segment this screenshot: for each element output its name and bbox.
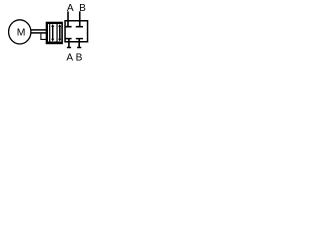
port block P2 <box>64 20 88 43</box>
port B bottom plug <box>76 38 83 40</box>
divider line 1 <box>49 24 51 42</box>
svg-text:A: A <box>67 3 74 14</box>
motor M1 circle <box>9 20 31 44</box>
port A bottom plug <box>65 38 71 40</box>
port A top plug <box>65 26 71 28</box>
mounting bracket <box>41 34 47 40</box>
svg-text:B: B <box>76 53 83 64</box>
port B top plug <box>76 26 83 28</box>
port A top stem <box>67 11 69 26</box>
svg-text:A: A <box>66 53 73 64</box>
pump body P1 <box>46 22 63 45</box>
pump element arrow 2 <box>58 24 61 42</box>
port A bottom stem <box>68 39 70 47</box>
svg-text:M: M <box>17 27 26 38</box>
shaft lower line <box>31 32 47 34</box>
shaft upper line <box>31 29 47 31</box>
svg-text:B: B <box>79 3 86 14</box>
port B top stem <box>79 11 81 26</box>
background <box>0 0 101 66</box>
port B bottom stem <box>78 39 80 47</box>
port B bottom crossbar <box>77 47 81 49</box>
port A bottom crossbar <box>67 47 71 49</box>
pump element arrow 1 <box>51 24 54 42</box>
divider line 2 <box>56 24 58 42</box>
